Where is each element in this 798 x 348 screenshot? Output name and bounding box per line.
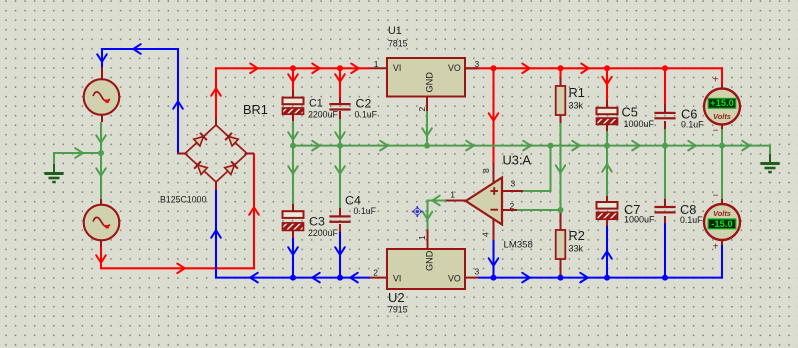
svg-text:2: 2 (510, 201, 515, 211)
svg-text:GND: GND (425, 250, 435, 271)
svg-text:R1: R1 (569, 85, 585, 100)
svg-text:1000uF: 1000uF (624, 119, 655, 129)
svg-text:U3:A: U3:A (503, 153, 532, 168)
svg-text:C5: C5 (622, 105, 638, 120)
svg-text:+: + (713, 75, 719, 86)
svg-text:GND: GND (425, 72, 435, 93)
svg-text:0.1uF: 0.1uF (355, 110, 378, 120)
svg-text:VI: VI (393, 274, 401, 284)
svg-text:BR1: BR1 (243, 102, 268, 117)
svg-text:C1: C1 (309, 98, 323, 110)
svg-text:2200uF: 2200uF (308, 110, 338, 120)
svg-text:1: 1 (450, 190, 455, 200)
svg-text:U2: U2 (388, 290, 405, 305)
svg-text:8: 8 (481, 168, 491, 173)
svg-text:LM358: LM358 (504, 240, 533, 251)
svg-text:2: 2 (417, 107, 427, 112)
svg-text:0.1uF: 0.1uF (681, 120, 704, 130)
svg-text:VI: VI (393, 63, 401, 73)
svg-text:1: 1 (374, 59, 379, 69)
svg-text:2: 2 (373, 268, 378, 278)
svg-text:4: 4 (481, 232, 491, 237)
svg-text:U1: U1 (388, 25, 402, 37)
svg-text:3: 3 (475, 267, 480, 277)
svg-text:+15.0: +15.0 (710, 97, 734, 108)
svg-text:R2: R2 (569, 228, 585, 243)
svg-text:3: 3 (511, 179, 516, 189)
svg-text:−: − (713, 191, 719, 202)
svg-text:-15.0: -15.0 (711, 218, 732, 229)
svg-text:+: + (713, 242, 719, 253)
svg-text:0.1uF: 0.1uF (354, 206, 377, 216)
svg-text:C2: C2 (356, 97, 372, 111)
svg-text:B125C1000: B125C1000 (160, 195, 207, 205)
svg-text:33k: 33k (569, 101, 584, 111)
svg-text:VO: VO (448, 63, 461, 73)
svg-text:33k: 33k (569, 244, 584, 254)
svg-text:3: 3 (475, 59, 480, 69)
svg-text:0.1uF: 0.1uF (680, 215, 703, 225)
svg-text:C3: C3 (309, 215, 325, 229)
svg-text:7915: 7915 (388, 305, 408, 315)
svg-text:7815: 7815 (388, 39, 408, 49)
svg-text:VO: VO (448, 274, 461, 284)
svg-text:1000uF: 1000uF (624, 215, 655, 225)
svg-text:1: 1 (417, 235, 427, 240)
svg-text:Volts: Volts (713, 209, 731, 218)
svg-text:2200uF: 2200uF (308, 228, 338, 238)
svg-text:Volts: Volts (713, 112, 731, 121)
svg-text:−: − (713, 126, 719, 137)
